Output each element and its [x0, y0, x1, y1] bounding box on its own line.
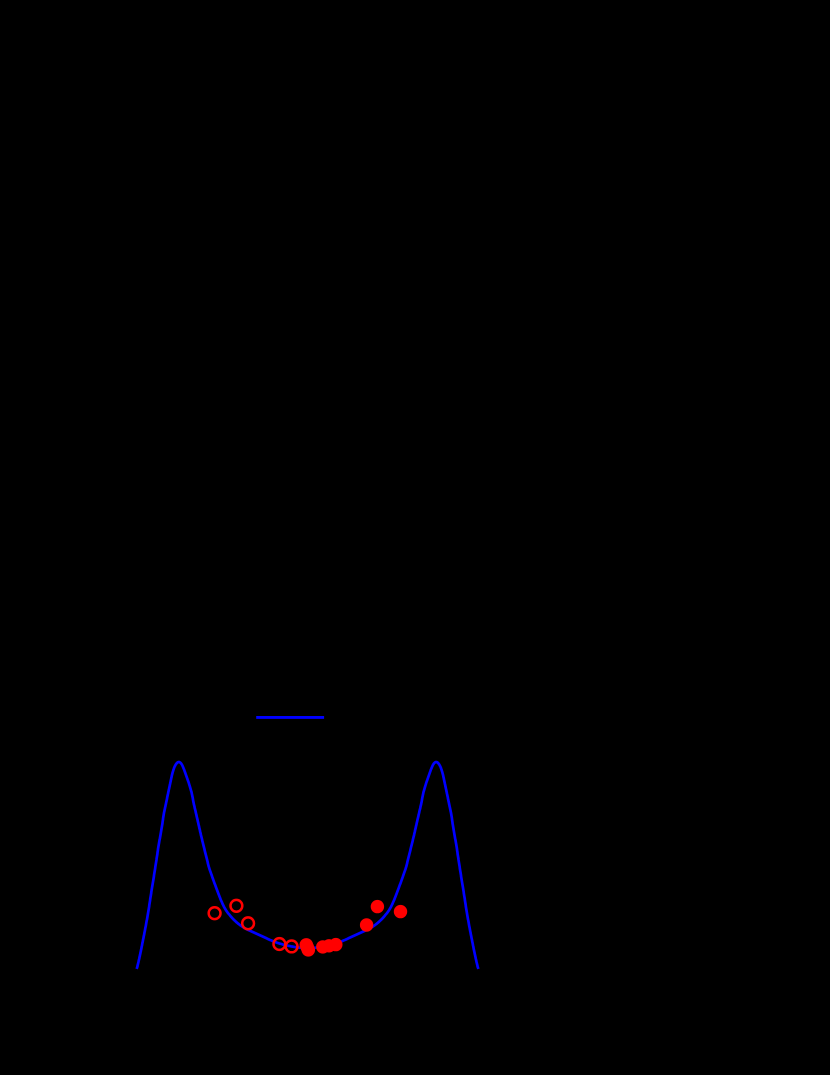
- filled scatter marker right flank low: [360, 918, 373, 931]
- open scatter marker 3: [242, 917, 254, 929]
- filled scatter marker right flank mid: [371, 900, 384, 913]
- open scatter marker 1: [209, 907, 221, 919]
- legend sample line (blue): [256, 716, 324, 719]
- open scatter marker 4: [274, 938, 286, 950]
- open scatter marker 5: [286, 941, 298, 953]
- filled scatter marker right flank high: [394, 905, 407, 918]
- curve: bimodal blue distribution: [137, 762, 479, 969]
- filled scatter marker pair at valley centre: [300, 938, 314, 952]
- open scatter marker 2: [231, 900, 243, 912]
- filled scatter marker cluster right of centre: [316, 940, 329, 953]
